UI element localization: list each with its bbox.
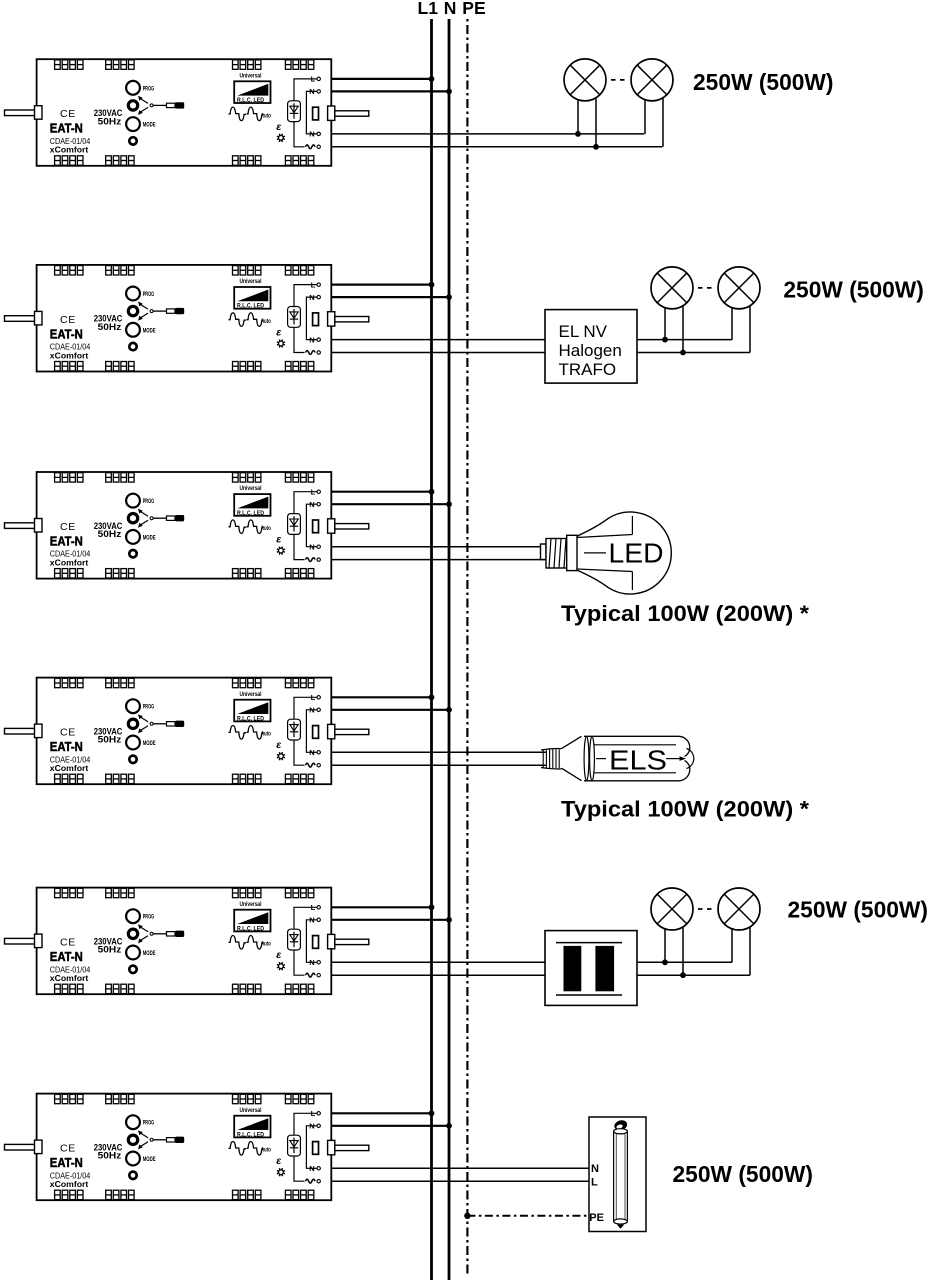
svg-text:Typical 100W (200W) *: Typical 100W (200W) * [561, 601, 809, 626]
dimming actuator U5 CDAE-01/04 [5, 888, 369, 995]
svg-text:250W (500W): 250W (500W) [788, 896, 929, 922]
dimming actuator U4 CDAE-01/04 [5, 678, 369, 785]
svg-text:LED: LED [609, 538, 664, 569]
lamp leads [665, 306, 750, 353]
wire N-out row1 to lamps [320, 133, 644, 135]
LED lamp [541, 512, 672, 594]
wire N device U5 to N bus [320, 919, 449, 921]
junction dot N row 4 [446, 707, 452, 713]
svg-text:PE: PE [589, 1212, 604, 1224]
wire N-out row3 to LED lamp [320, 546, 546, 548]
lamp E2 [718, 267, 760, 309]
wire N device U6 to N bus [320, 1125, 449, 1127]
svg-text:TRAFO: TRAFO [559, 360, 617, 379]
fluorescent lamp box [589, 1117, 646, 1232]
junction dot L1 row 1 [429, 76, 435, 82]
wire trafo to lamps lower [637, 352, 750, 354]
junction dot L1 row 6 [429, 1110, 435, 1116]
wire N-out row4 to ELS lamp [320, 751, 546, 753]
junction dot L1 row 2 [429, 282, 435, 288]
svg-text:N: N [591, 1163, 599, 1175]
dashed continuation [698, 287, 712, 289]
wire N-out row5 to transformer [320, 961, 545, 963]
junction dots [575, 131, 599, 150]
lamp leads [665, 927, 750, 975]
svg-text:250W (500W): 250W (500W) [673, 1161, 814, 1187]
junction dot L1 row 5 [429, 904, 435, 910]
dashed continuation [698, 908, 712, 910]
dimming actuator U1 CDAE-01/04 [5, 59, 369, 166]
junction dots [662, 337, 686, 356]
wire N device U2 to N bus [320, 296, 449, 298]
wire L device U4 to L1 bus [320, 696, 431, 698]
svg-text:250W (500W): 250W (500W) [783, 276, 924, 302]
halogen transformer box [545, 310, 637, 384]
svg-text:ELS: ELS [609, 744, 667, 775]
svg-text:N: N [444, 0, 457, 18]
conventional transformer box [545, 931, 637, 1006]
wire dimmed output row6 to tube [320, 1180, 589, 1182]
wire L device U2 to L1 bus [320, 284, 431, 286]
svg-text:PE: PE [462, 0, 485, 18]
svg-text:EL NV: EL NV [559, 322, 608, 341]
junction dot N row 6 [446, 1123, 452, 1129]
lamp E1 [564, 59, 606, 101]
lamp E2 [631, 59, 673, 101]
wire N device U3 to N bus [320, 503, 449, 505]
wire N device U4 to N bus [320, 709, 449, 711]
wire PE to tube [467, 1215, 589, 1217]
junction dot N row 5 [446, 917, 452, 923]
wire L device U6 to L1 bus [320, 1112, 431, 1114]
wire transformer to lamps upper [637, 961, 732, 963]
dimming actuator U2 CDAE-01/04 [5, 265, 369, 372]
ELS lamp [541, 736, 694, 781]
wire transformer to lamps lower [637, 974, 750, 976]
lamp E2 [718, 888, 760, 930]
bus line PE [466, 19, 468, 1277]
lamp E1 [651, 267, 693, 309]
PE junction dot [464, 1213, 470, 1219]
wire dimmed output row3 to LED lamp [320, 559, 546, 561]
lamp leads [578, 98, 663, 147]
junction dot L1 row 3 [429, 489, 435, 495]
wire dimmed output row4 to ELS lamp [320, 764, 546, 766]
wire L device U3 to L1 bus [320, 491, 431, 493]
junction dot N row 1 [446, 89, 452, 95]
svg-text:L: L [591, 1176, 598, 1188]
wire dimmed output row5 to transformer [320, 974, 545, 976]
wire L device U1 to L1 bus [320, 78, 431, 80]
wire N-out row2 to trafo [320, 339, 545, 341]
svg-text:L1: L1 [418, 0, 439, 18]
wire L device U5 to L1 bus [320, 906, 431, 908]
svg-text:250W (500W): 250W (500W) [693, 69, 834, 95]
dashed continuation [611, 79, 625, 81]
wire N-out row6 to tube [320, 1167, 589, 1169]
junction dot N row 2 [446, 294, 452, 300]
svg-text:Halogen: Halogen [559, 341, 622, 360]
wire dimmed output row1 to lamps [320, 146, 662, 148]
junction dot L1 row 4 [429, 694, 435, 700]
wire dimmed output row2 to trafo [320, 352, 545, 354]
dimming actuator U6 CDAE-01/04 [5, 1094, 369, 1201]
lamp E1 [651, 888, 693, 930]
bus line N [448, 19, 451, 1280]
junction dots [662, 959, 686, 978]
bus line L1 [430, 19, 433, 1280]
dimming actuator U3 CDAE-01/04 [5, 472, 369, 579]
wire trafo to lamps upper [637, 339, 732, 341]
junction dot N row 3 [446, 501, 452, 507]
wire N device U1 to N bus [320, 90, 449, 92]
svg-text:Typical 100W (200W) *: Typical 100W (200W) * [561, 797, 809, 822]
